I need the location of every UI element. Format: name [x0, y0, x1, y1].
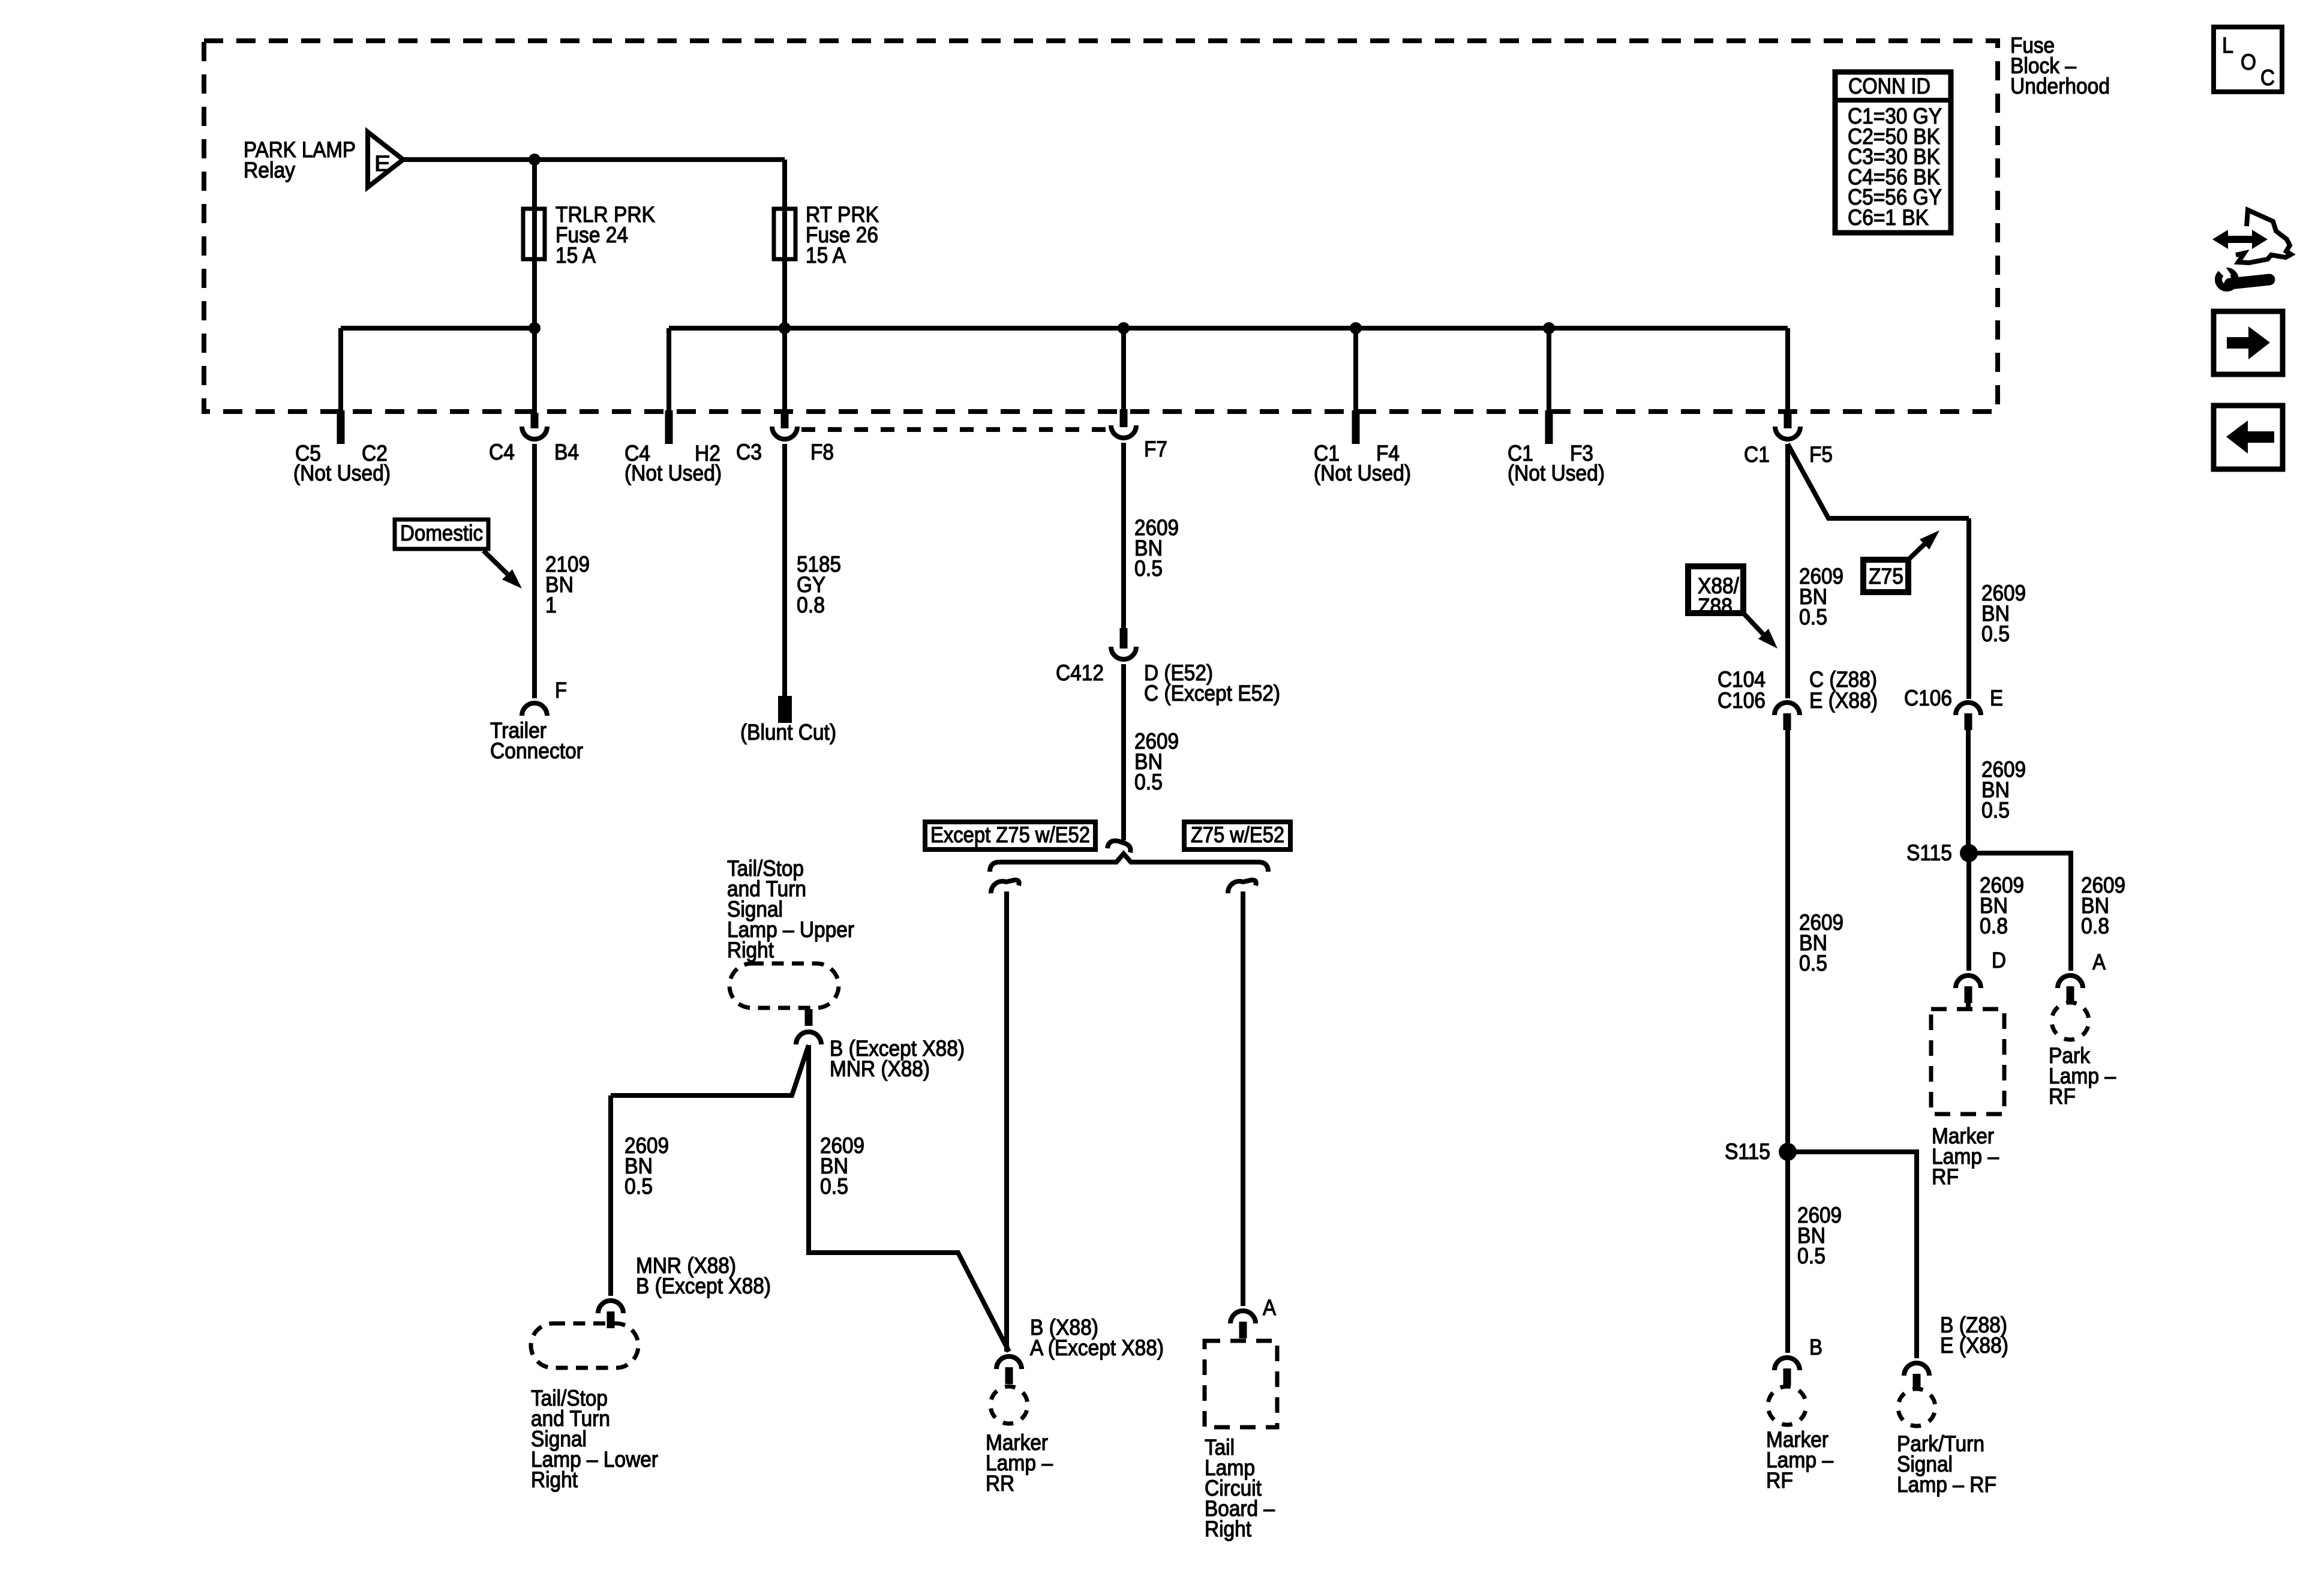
connector A park lamp RF	[2058, 975, 2083, 988]
svg-text:B (Except X88): B (Except X88)	[636, 1274, 771, 1298]
svg-text:A (Except X88): A (Except X88)	[1030, 1335, 1164, 1360]
svg-text:D: D	[1992, 948, 2006, 972]
tail lamp harness dashed boundary	[801, 427, 1107, 432]
svg-text:F8: F8	[810, 440, 834, 464]
svg-text:(Not Used): (Not Used)	[624, 461, 722, 485]
splice S115 (left)	[1779, 1143, 1797, 1161]
junction node at B4 column	[529, 322, 541, 334]
option box Z75 w/E52	[1184, 822, 1290, 849]
svg-text:E: E	[1990, 686, 2003, 710]
wire left option branch to marker RR	[1004, 891, 1009, 1352]
junction node F8 column	[779, 322, 791, 334]
pin stub F3 (not used)	[1545, 410, 1553, 444]
junction node F3 column	[1543, 322, 1555, 334]
svg-text:0.5: 0.5	[624, 1174, 653, 1199]
connector B/E park/turn signal lamp RF	[1904, 1363, 1929, 1376]
wire right bus (fuse 26 net)	[669, 326, 1788, 331]
connector C4/B4	[531, 413, 539, 428]
wire F5 drop	[1785, 328, 1790, 413]
wire MNR drop	[608, 1095, 613, 1296]
wire F3 stub drop	[1547, 328, 1551, 410]
svg-text:Right: Right	[531, 1467, 578, 1492]
svg-text:1: 1	[545, 593, 557, 617]
svg-text:C1: C1	[1744, 442, 1770, 467]
svg-text:S115: S115	[1906, 840, 1952, 865]
svg-text:F: F	[555, 678, 567, 703]
svg-text:0.5: 0.5	[820, 1174, 848, 1199]
svg-text:15 A: 15 A	[556, 243, 596, 268]
svg-text:0.5: 0.5	[1797, 1244, 1825, 1268]
Z75 callout box	[1863, 560, 1908, 592]
wire C5 stub drop	[338, 328, 343, 410]
wire F5 to X88/Z88 branch	[1785, 444, 1790, 698]
svg-text:Right: Right	[727, 938, 774, 962]
svg-text:C (Except E52): C (Except E52)	[1144, 681, 1280, 706]
svg-text:C: C	[2260, 65, 2275, 90]
svg-text:0.5: 0.5	[1134, 556, 1163, 581]
svg-text:F5: F5	[1809, 442, 1833, 467]
junction node F7 column	[1118, 322, 1130, 334]
wire C104 to S115	[1785, 730, 1790, 1152]
connector at lower right lamp	[598, 1301, 623, 1313]
wire F8 to blunt cut	[782, 444, 787, 697]
svg-text:CONN ID: CONN ID	[1848, 74, 1930, 98]
svg-text:Domestic: Domestic	[400, 521, 483, 545]
svg-text:Connector: Connector	[490, 739, 583, 763]
Domestic callout arrow	[484, 551, 508, 574]
svg-text:0.5: 0.5	[1981, 798, 2010, 822]
wire to fuse 24	[532, 160, 537, 328]
svg-text:(Not Used): (Not Used)	[293, 461, 391, 485]
forward arrow box	[2214, 311, 2283, 374]
svg-text:A: A	[2092, 950, 2106, 974]
trailer connector pin F	[522, 703, 547, 716]
pin stub C5 (not used)	[337, 410, 345, 444]
svg-text:C106: C106	[1718, 688, 1765, 713]
svg-text:Relay: Relay	[244, 158, 295, 182]
left option hook	[991, 880, 1019, 893]
pin stub F4 (not used)	[1352, 410, 1360, 444]
marker lamp RF outline	[1931, 1009, 2004, 1114]
connector B marker lamp RF	[1774, 1358, 1800, 1370]
svg-text:C412: C412	[1056, 661, 1104, 685]
marker lamp RF bulb	[1768, 1386, 1806, 1425]
svg-text:0.5: 0.5	[1799, 605, 1827, 629]
wire F7 drop	[1121, 328, 1126, 409]
svg-text:C3: C3	[736, 440, 762, 464]
svg-text:0.5: 0.5	[1134, 770, 1163, 794]
wire S115 to marker RF box	[1966, 853, 1971, 971]
svg-text:C6=1 BK: C6=1 BK	[1848, 205, 1929, 230]
wire F5 to Z75 branch	[1788, 444, 1969, 518]
tail lamp circuit board outline	[1205, 1341, 1277, 1427]
svg-text:RR: RR	[986, 1471, 1014, 1496]
wire S115 to marker RF	[1785, 1152, 1790, 1353]
wire into marker RF box	[1966, 1003, 1971, 1010]
relay output terminal E (triangle)	[368, 132, 403, 187]
wire upper lamp to MNR branch	[611, 1045, 809, 1095]
svg-text:Lamp – RF: Lamp – RF	[1897, 1472, 1996, 1497]
svg-text:A: A	[1263, 1295, 1276, 1320]
wire C412 to option split	[1121, 664, 1126, 840]
wire F4 stub drop	[1353, 328, 1358, 410]
fuse F24 TRLR PRK	[523, 209, 545, 259]
svg-text:0.8: 0.8	[2081, 914, 2109, 938]
svg-text:L: L	[2222, 33, 2233, 58]
wire F7 to C412	[1121, 443, 1126, 629]
svg-text:Z75: Z75	[1869, 564, 1903, 589]
diagnostic wrench icon	[2212, 210, 2291, 288]
park lamp RF bulb	[2052, 1002, 2089, 1040]
svg-text:0.8: 0.8	[797, 593, 825, 617]
svg-text:0.8: 0.8	[1980, 914, 2008, 938]
junction node F4 column	[1350, 322, 1362, 334]
svg-text:E (X88): E (X88)	[1809, 688, 1878, 713]
svg-text:Underhood: Underhood	[2010, 74, 2110, 98]
svg-text:(Not Used): (Not Used)	[1314, 461, 1411, 485]
inline connector C104/C106	[1774, 703, 1800, 715]
svg-text:Right: Right	[1205, 1517, 1252, 1541]
option brace	[990, 854, 1268, 872]
CONN ID table	[1835, 72, 1951, 233]
wire S115 tee to park/turn lamp	[1788, 1152, 1917, 1358]
X88/Z88 callout arrow	[1744, 614, 1763, 634]
svg-text:Z75 w/E52: Z75 w/E52	[1191, 822, 1284, 847]
wire left bus (fuse 24 net)	[341, 326, 535, 331]
connector F7	[1120, 409, 1128, 427]
splice S115 (right)	[1960, 844, 1978, 862]
back arrow box	[2214, 406, 2283, 469]
inline connector C412	[1120, 628, 1128, 649]
svg-text:C4: C4	[489, 440, 515, 464]
svg-text:S115: S115	[1725, 1139, 1770, 1164]
connector A at tail lamp circuit board	[1230, 1311, 1256, 1323]
fuse F26 RT PRK	[774, 209, 795, 259]
connector marker lamp RR	[996, 1356, 1022, 1369]
connector at upper right lamp	[805, 1009, 813, 1026]
svg-text:F7: F7	[1144, 437, 1167, 461]
wire C4/H2 stub drop	[666, 328, 671, 410]
wire right option branch to circuit board	[1241, 891, 1245, 1306]
svg-text:RF: RF	[2049, 1084, 2076, 1109]
inline connector C106/E	[1956, 703, 1981, 715]
pin stub H2 (not used)	[665, 410, 673, 444]
option box Except Z75 w/E52	[925, 822, 1095, 849]
svg-text:RF: RF	[1766, 1468, 1793, 1493]
svg-text:15 A: 15 A	[806, 243, 846, 268]
svg-text:(Not Used): (Not Used)	[1508, 461, 1605, 485]
right option hook	[1228, 880, 1256, 893]
svg-text:C106: C106	[1904, 686, 1952, 710]
svg-text:Z88: Z88	[1698, 594, 1733, 619]
tail/stop and turn signal lamp upper right outline	[729, 963, 839, 1008]
wire B4 to trailer connector	[532, 444, 537, 698]
svg-text:0.5: 0.5	[1981, 622, 2010, 646]
fuse block boundary (Fuse Block - Underhood)	[204, 41, 1998, 412]
wire B4 drop	[532, 328, 537, 413]
park/turn signal lamp RF bulb	[1898, 1389, 1935, 1426]
wire upper lamp to marker RR connector	[809, 1045, 1009, 1352]
wire Z75 branch vertical	[1966, 518, 1971, 699]
wire to fuse 26	[782, 160, 787, 328]
wire F8 drop	[782, 328, 787, 413]
connector D marker lamp RF	[1956, 975, 1981, 988]
svg-text:B: B	[1809, 1335, 1822, 1359]
wire C106 to S115	[1966, 730, 1971, 845]
svg-text:E (X88): E (X88)	[1940, 1333, 2008, 1358]
connector C1/F5	[1784, 413, 1792, 428]
Domestic callout box	[395, 520, 488, 549]
wire relay output to fuses	[402, 157, 785, 162]
Z75 callout arrow	[1909, 544, 1924, 559]
LOC inset box	[2214, 27, 2282, 92]
svg-text:O: O	[2241, 50, 2256, 74]
svg-text:MNR (X88): MNR (X88)	[830, 1056, 930, 1081]
option split hook	[1107, 841, 1131, 853]
X88/Z88 callout box	[1688, 566, 1743, 613]
svg-text:Except Z75 w/E52: Except Z75 w/E52	[930, 822, 1090, 847]
blunt cut	[778, 696, 792, 723]
connector C3/F8	[781, 413, 789, 428]
svg-text:(Blunt Cut): (Blunt Cut)	[740, 720, 836, 745]
tail/stop and turn signal lamp lower right outline	[531, 1323, 638, 1368]
svg-text:0.5: 0.5	[1799, 951, 1827, 975]
marker lamp RR bulb	[990, 1386, 1028, 1424]
junction node fuse 24 tap	[529, 154, 541, 166]
svg-text:E: E	[374, 151, 391, 176]
wire S115 tee to park lamp RF	[1969, 853, 2071, 971]
svg-text:B4: B4	[554, 440, 579, 464]
svg-text:RF: RF	[1932, 1164, 1959, 1189]
